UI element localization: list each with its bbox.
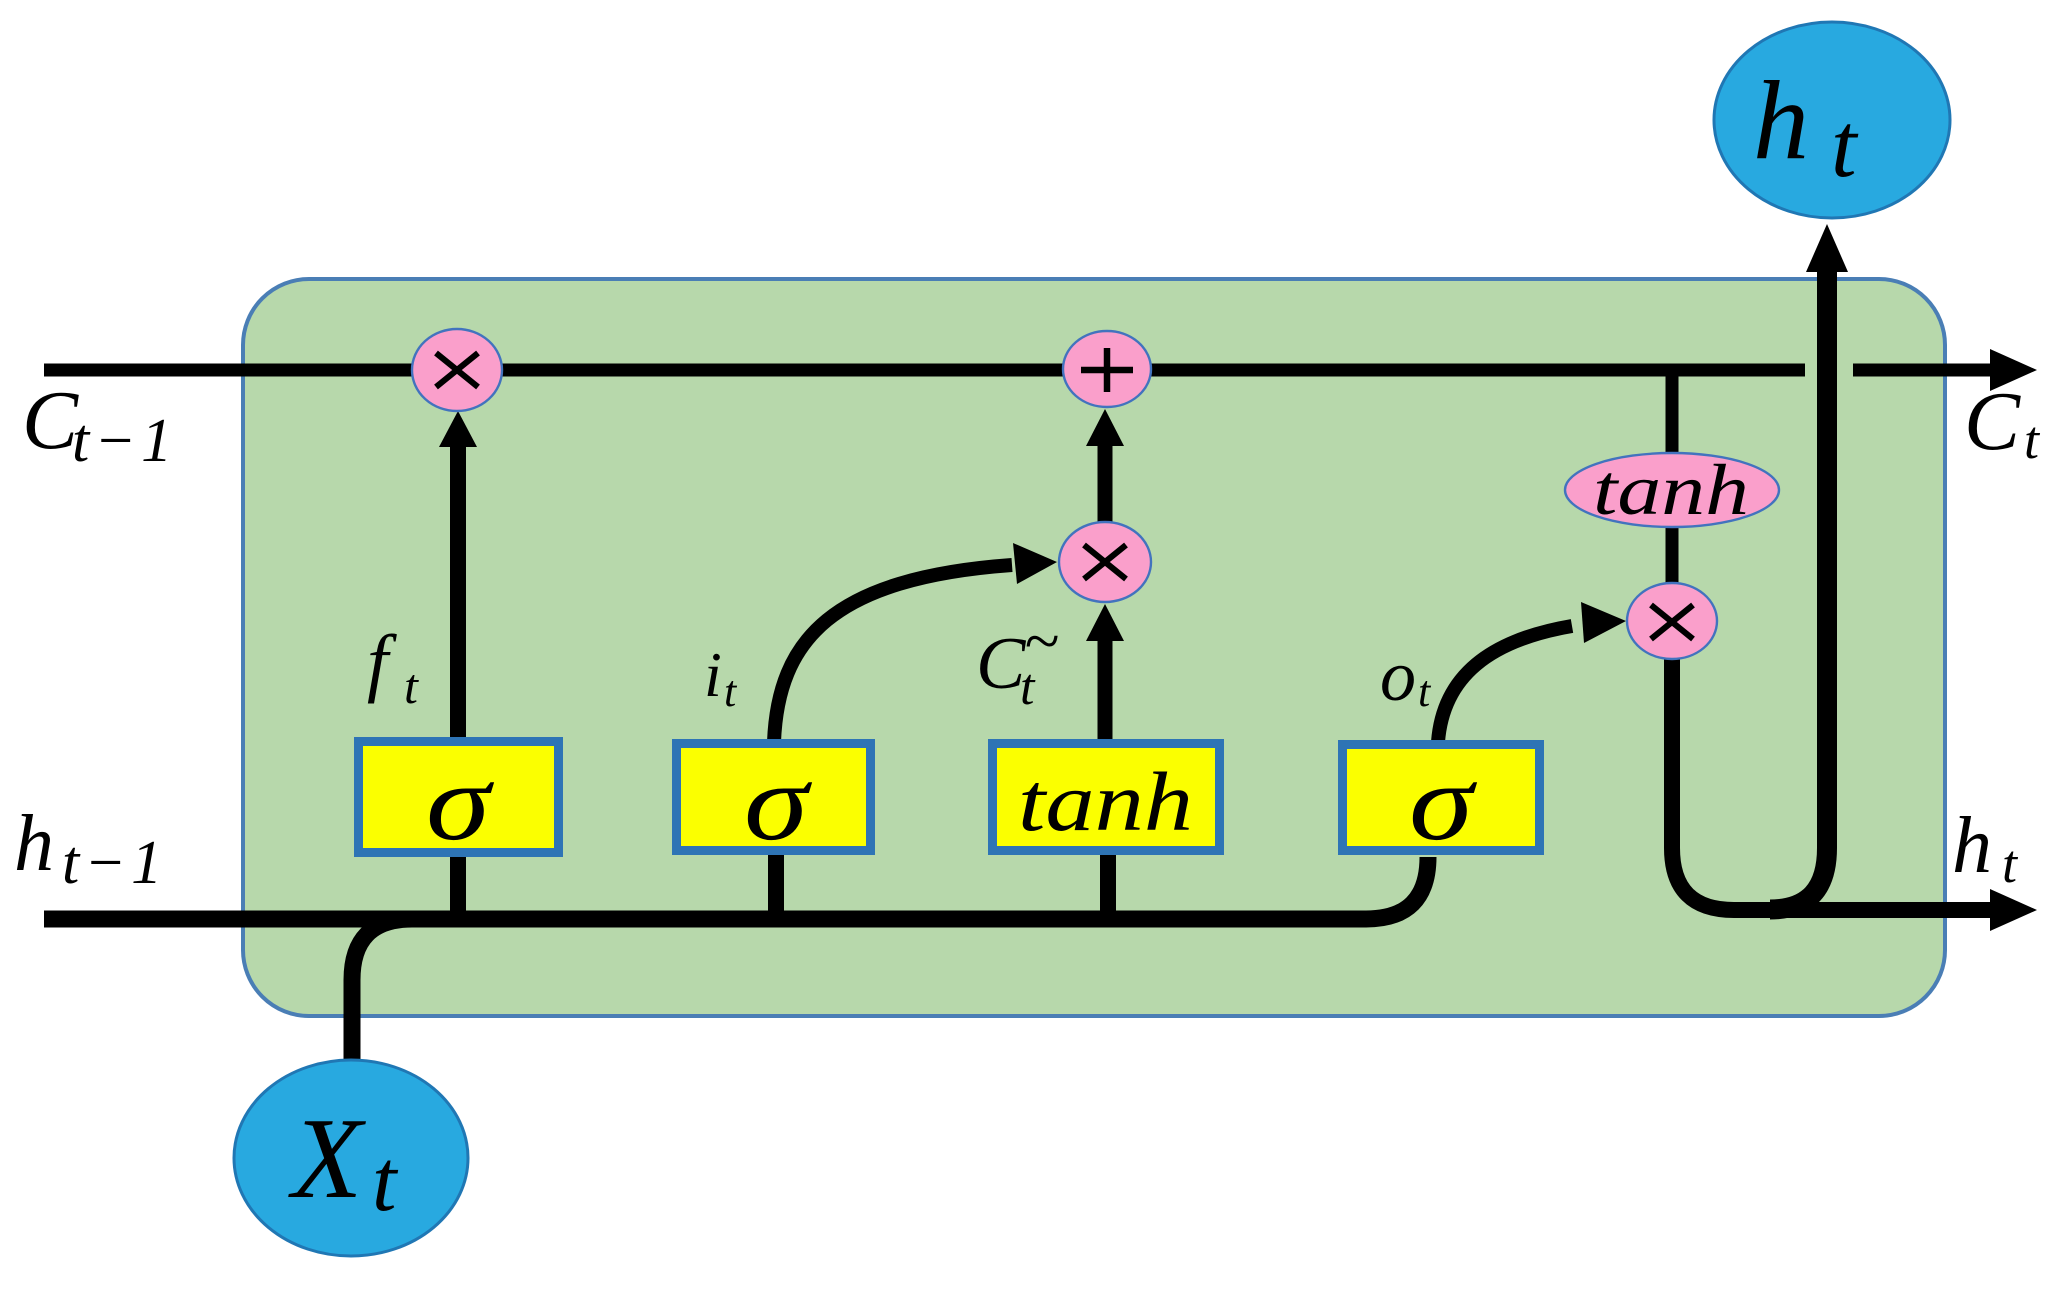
wire: stem sigma2 down to h line [768,855,784,920]
svg-text:t: t [2024,410,2041,470]
svg-text:tanh: tanh [1018,756,1193,849]
LSTM cell body (green rounded box) [243,279,1945,1016]
wire: output gate curve o_t (sigma4 top to multiply gate 3) [1438,626,1572,742]
wire: cell state line C (right segment to output arrow) [1853,364,1992,377]
svg-text:h: h [1753,59,1809,183]
wire: candidate arrow C~_t (tanh box up to multiply gate 2) [1098,638,1113,742]
svg-text:t: t [372,1133,399,1230]
svg-text:t−1: t−1 [62,829,167,897]
svg-text:σ: σ [744,741,812,863]
wire: X_t stem up into h line [352,919,412,1066]
arrowhead into multiply gate 2 bottom [1086,604,1124,641]
svg-text:t: t [1831,94,1859,196]
node h_t (blue ellipse top right) [1714,22,1950,218]
wire: stem sigma1 down to h line [450,855,466,920]
multiply gate 3 (pink circle x) [1627,583,1717,659]
wire: stem tanh box down to h line [1100,855,1116,920]
add gate (pink circle +) [1063,331,1151,407]
wire: hidden state line h (left, ends curving up into sigma4) [44,857,1428,919]
svg-text:t: t [2002,834,2019,894]
svg-text:C: C [1964,375,2021,468]
svg-text:i: i [704,639,722,710]
wire: multiply gate 2 up to add gate [1098,444,1113,524]
wire: multiply gate 3 output U-turn to h_t output [1672,650,1992,910]
arrowhead into h_t ellipse [1806,224,1848,272]
svg-text:o: o [1380,636,1416,716]
sigma gate 4 (yellow box) [1343,741,1540,863]
wire: riser up to h_t ellipse [1770,272,1827,910]
tanh gate (yellow box) [993,744,1220,851]
arrowhead o_t into multiply gate 3 [1581,602,1626,643]
svg-text:t: t [1418,667,1432,716]
wire: forget gate arrow f_t (sigma1 up to multiply gate) [450,442,466,740]
svg-text:X: X [288,1095,366,1222]
wire: add gate down-line to tanh ellipse and multiply gate 3 (vertical at 1672) [1666,376,1679,590]
multiply gate 2 (pink circle x) [1059,522,1151,602]
svg-text:h: h [14,800,54,888]
node X_t (blue ellipse bottom left) [234,1060,468,1256]
wire: input gate curve i_t (sigma2 top to multiply gate 2) [774,565,1012,742]
svg-text:tanh: tanh [1593,450,1749,530]
arrowhead into multiply gate 1 [439,411,477,447]
svg-text:h: h [1952,802,1992,890]
svg-text:σ: σ [426,741,494,863]
arrowhead into add gate [1086,409,1124,446]
arrowhead i_t into multiply gate 2 [1013,543,1057,584]
multiply gate 1 (pink circle x) [412,329,502,411]
svg-text:σ: σ [1409,741,1477,863]
arrowhead C_t output [1990,349,2037,391]
wire: cell state line C (left segment through x and + gates) [44,364,1805,377]
arrowhead h_t output right [1990,889,2037,931]
svg-text:t: t [724,667,738,716]
svg-text:~: ~ [1024,605,1059,676]
svg-text:C: C [22,374,79,467]
sigma gate 2 (yellow box) [677,741,871,863]
sigma gate 1 (yellow box) [359,741,559,863]
tanh ellipse (pink) [1565,450,1779,530]
svg-text:t: t [404,658,419,714]
svg-text:t−1: t−1 [72,407,177,475]
